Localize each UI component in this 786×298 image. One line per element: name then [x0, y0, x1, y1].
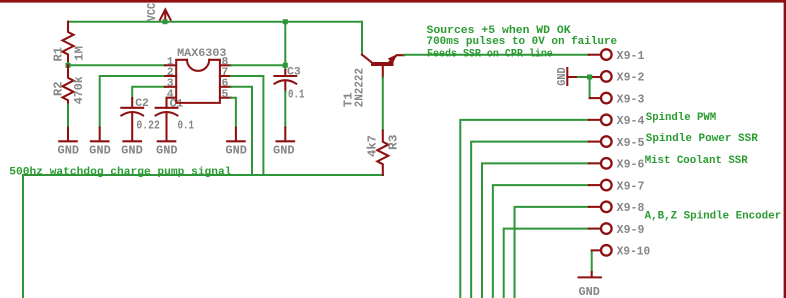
wire IC pin2 to GND column	[100, 76, 165, 128]
pin 2 stub	[165, 75, 176, 77]
wire C3 to GND	[284, 92, 286, 128]
wire 500hz watchdog net	[23, 175, 383, 298]
op-amp U1 MAX6303 body	[176, 48, 226, 103]
wire R2 bottom to GND	[67, 105, 69, 128]
svg-text:Feeds SSR on CPR line: Feeds SSR on CPR line	[427, 48, 553, 60]
emitter lead	[389, 55, 405, 63]
pin X9-6	[589, 158, 645, 172]
wire GND to X9-2 junction	[578, 76, 590, 78]
wire X9-10 to GND	[591, 252, 593, 272]
ground GND (X9-2) rotated	[556, 67, 578, 86]
junction X9-2	[587, 75, 592, 80]
wire IC pin4 to C1 (red)	[167, 98, 177, 108]
svg-text:X9-9: X9-9	[617, 224, 645, 237]
svg-text:Mist Coolant SSR: Mist Coolant SSR	[645, 155, 748, 167]
wire X9-7 staircase	[493, 185, 589, 298]
capacitor C2 0.22	[121, 98, 160, 140]
ground GND (pin2)	[89, 128, 111, 158]
svg-text:500hz watchdog charge pump sig: 500hz watchdog charge pump signal	[9, 167, 231, 179]
svg-text:4: 4	[167, 89, 174, 101]
wire X9-9 staircase	[504, 229, 589, 298]
svg-text:X9-1: X9-1	[617, 50, 645, 63]
svg-text:X9-10: X9-10	[617, 246, 651, 259]
svg-text:X9-6: X9-6	[617, 159, 645, 172]
junction at C3 drop on rail	[283, 19, 288, 24]
ground GND (R2)	[58, 128, 80, 158]
junction pin8/C3	[283, 63, 288, 68]
svg-text:GND: GND	[579, 286, 600, 298]
svg-text:GND: GND	[121, 144, 143, 157]
pin X9-7	[589, 180, 645, 194]
svg-text:GND: GND	[89, 144, 111, 157]
svg-text:C3: C3	[287, 67, 301, 79]
collector lead	[362, 55, 373, 63]
ground GND (X9-10)	[579, 272, 601, 298]
svg-text:VCC: VCC	[146, 3, 159, 22]
svg-text:4k7: 4k7	[367, 135, 380, 157]
svg-text:R3: R3	[387, 134, 400, 150]
svg-text:0.1: 0.1	[178, 119, 195, 132]
svg-text:X9-4: X9-4	[617, 115, 645, 128]
wire R1 bottom to junction	[67, 63, 69, 65]
pin X9-9	[589, 223, 645, 237]
junction X9-2 overlay	[587, 75, 592, 80]
wire pin6 down to 500hz net	[231, 87, 252, 175]
svg-text:R1: R1	[52, 47, 65, 62]
ground GND (C3)	[273, 128, 295, 158]
junction R1/R2/pin1	[66, 63, 71, 68]
pin X9-3	[590, 93, 645, 107]
svg-text:C2: C2	[135, 98, 149, 110]
pin 1 stub	[165, 64, 176, 66]
wire X9-6 staircase	[482, 163, 589, 298]
svg-text:GND: GND	[225, 144, 247, 157]
base bar	[371, 62, 394, 66]
wire VCC top rail	[68, 21, 362, 23]
svg-text:GND: GND	[273, 144, 295, 157]
svg-text:700ms pulses to 0V on failure: 700ms pulses to 0V on failure	[427, 36, 618, 48]
wire emitter to X9-1	[404, 54, 589, 56]
svg-text:0.22: 0.22	[136, 119, 160, 132]
wire X9-5 staircase	[471, 142, 589, 298]
wire base to R3	[382, 78, 384, 131]
pin X9-8	[589, 202, 645, 216]
capacitor C1 0.1	[156, 99, 194, 141]
collector wire drop	[361, 22, 363, 55]
pin 7 stub	[220, 75, 231, 77]
ground GND (C2)	[121, 141, 143, 157]
svg-text:X9-5: X9-5	[617, 137, 645, 150]
ground GND (pin5)	[225, 128, 247, 158]
pin 8 stub	[220, 64, 231, 66]
frame right border	[784, 0, 786, 298]
transistor T1 2N2222	[342, 22, 404, 108]
wire pin8 to C3 node	[231, 64, 285, 66]
pin X9-1	[589, 49, 645, 63]
wire IC pin3 to C2	[132, 87, 165, 98]
supply symbol VCC	[146, 3, 171, 22]
svg-text:X9-7: X9-7	[617, 180, 645, 193]
frame top border	[0, 0, 786, 3]
svg-text:X9-3: X9-3	[617, 93, 645, 106]
resistor R1 1M	[52, 22, 86, 63]
svg-text:5: 5	[222, 89, 229, 101]
pin 3 stub	[165, 86, 176, 88]
ground GND (C1)	[156, 141, 178, 157]
pin X9-5	[589, 136, 645, 150]
pin X9-2	[590, 71, 645, 85]
wire X9-4 staircase	[460, 120, 589, 298]
wire pin5 to GND	[231, 98, 236, 128]
pin X9-4	[589, 115, 645, 129]
wire rail drop to C3	[284, 22, 286, 70]
wire junction down to X9-3	[589, 77, 591, 98]
wire junction to IC pin 1	[68, 64, 165, 66]
svg-text:GND: GND	[58, 144, 80, 157]
wire pin7 down to 500hz net	[231, 76, 263, 175]
junction at VCC stub	[163, 19, 168, 24]
svg-text:X9-8: X9-8	[617, 202, 645, 215]
svg-text:R2: R2	[52, 81, 65, 96]
svg-text:GND: GND	[156, 144, 178, 157]
svg-text:Spindle PWM: Spindle PWM	[646, 112, 717, 124]
base stub down	[382, 66, 384, 78]
svg-text:A,B,Z Spindle Encoder: A,B,Z Spindle Encoder	[645, 211, 782, 223]
resistor R2 470k	[52, 65, 86, 104]
svg-text:1M: 1M	[73, 46, 86, 61]
svg-text:0.1: 0.1	[288, 88, 305, 101]
svg-text:Spindle Power SSR: Spindle Power SSR	[646, 133, 758, 145]
pin 6 stub	[220, 86, 231, 88]
svg-text:2N2222: 2N2222	[353, 68, 366, 107]
pin 5 stub	[220, 97, 231, 99]
svg-text:MAX6303: MAX6303	[177, 48, 226, 60]
emitter arrow	[388, 54, 398, 63]
capacitor C3 0.1	[274, 67, 304, 102]
svg-text:GND: GND	[556, 67, 569, 86]
svg-text:470k: 470k	[73, 76, 86, 104]
wire X9-8 staircase	[515, 207, 589, 298]
svg-text:X9-2: X9-2	[617, 72, 645, 85]
resistor R3 4k7	[367, 131, 401, 175]
pin X9-10	[592, 245, 651, 259]
